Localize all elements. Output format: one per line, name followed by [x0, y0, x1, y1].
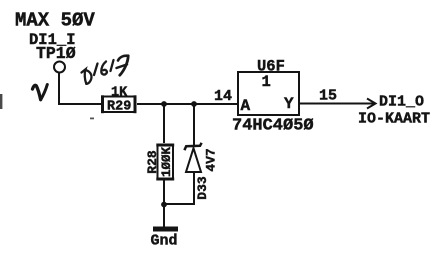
svg-text:74HC4Ø5Ø: 74HC4Ø5Ø [232, 117, 314, 136]
resistor R29 [103, 95, 136, 113]
svg-text:4V7: 4V7 [204, 148, 219, 171]
ref R28 [145, 150, 160, 174]
value 100K [160, 147, 174, 178]
svg-text:R28: R28 [145, 150, 160, 174]
wire D33 to bottom wire [193, 172, 195, 204]
svg-text:IO-KAART: IO-KAART [358, 111, 430, 128]
wire junction to D33 [193, 104, 195, 146]
bottom wire D33 to ground node [163, 203, 195, 205]
ground bar [153, 227, 178, 232]
ref D33 [195, 176, 210, 200]
svg-text:Y: Y [284, 95, 294, 113]
svg-text:A: A [241, 97, 251, 115]
scan artifact left edge [0, 94, 2, 109]
junction node at R28 branch [161, 101, 167, 107]
junction node at ground branch [161, 202, 167, 208]
svg-text:15: 15 [319, 88, 337, 105]
svg-text:1ØØK: 1ØØK [160, 147, 174, 178]
wire R28 to bottom node [163, 179, 165, 205]
svg-text:Gnd: Gnd [151, 233, 178, 250]
test point TP10 circle [54, 62, 65, 73]
svg-text:MAX 5ØV: MAX 5ØV [15, 10, 95, 32]
wire to ground [163, 204, 165, 227]
wire R29 to U6F pin A [137, 103, 238, 105]
svg-text:DI1_O: DI1_O [379, 94, 424, 111]
junction node at D33 branch [191, 101, 197, 107]
handwritten annotation D1617 [82, 56, 129, 84]
svg-text:TP1Ø: TP1Ø [36, 44, 76, 63]
wire junction to R28 [163, 104, 165, 143]
resistor R28 [156, 145, 174, 179]
output wire with arrow [299, 99, 376, 109]
svg-text:1: 1 [262, 73, 271, 91]
scan artifact dot below R29 [90, 118, 94, 120]
handwritten checkmark V [33, 85, 48, 100]
zener diode D33 [184, 143, 201, 172]
value 4V7 [204, 148, 219, 171]
wire from TP10 down and right to R29 [59, 73, 101, 105]
svg-text:R29: R29 [107, 100, 131, 115]
svg-text:1K: 1K [111, 86, 128, 101]
op-amp buffer U6F box [238, 72, 299, 115]
svg-text:14: 14 [214, 88, 232, 105]
svg-text:D33: D33 [195, 176, 210, 200]
